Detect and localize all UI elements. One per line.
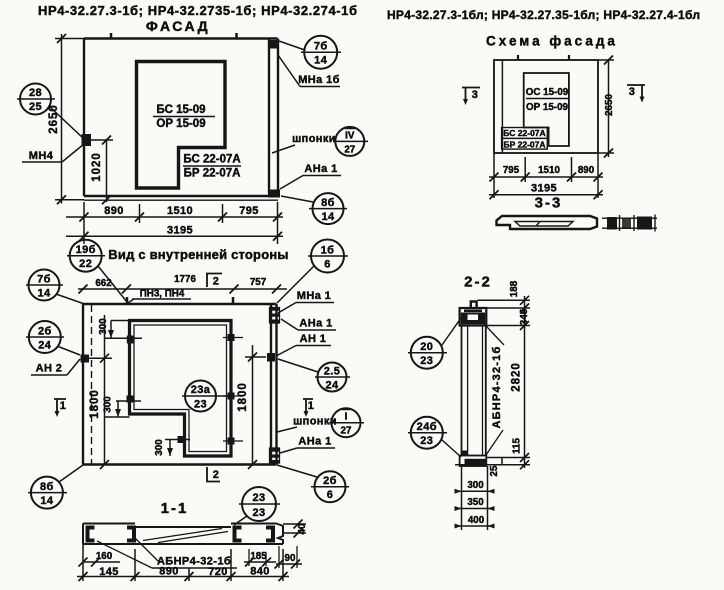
- schema opening: [524, 73, 569, 146]
- svg-text:АБНР4-32-1б: АБНР4-32-1б: [491, 346, 503, 429]
- callout circle 23а/23: [182, 381, 231, 412]
- svg-text:188: 188: [509, 280, 520, 297]
- svg-text:МНа 1: МНа 1: [297, 290, 331, 302]
- facade bottom dim 3195: [66, 225, 283, 241]
- svg-text:1: 1: [308, 400, 315, 412]
- svg-text:МН4: МН4: [29, 150, 54, 162]
- svg-text:1б: 1б: [321, 245, 335, 257]
- section marker 1 right: [303, 399, 314, 417]
- svg-text:720: 720: [208, 566, 228, 578]
- anchor square top-right: [269, 40, 278, 49]
- svg-text:8б: 8б: [321, 197, 335, 209]
- callout circle 1б/6: [277, 240, 348, 304]
- svg-text:3: 3: [629, 86, 636, 98]
- svg-text:IV: IV: [345, 131, 355, 142]
- svg-text:2: 2: [213, 276, 220, 288]
- dim 160: [79, 551, 121, 567]
- callout circle 2б/6: [277, 465, 349, 502]
- svg-text:АНа 1: АНа 1: [304, 163, 337, 175]
- dim 300 mid-left: [103, 396, 142, 417]
- svg-text:24: 24: [325, 380, 339, 392]
- label АН 1: [276, 333, 331, 356]
- inner panel top ticks ПН3 ПН4: [127, 297, 233, 304]
- schema table БС 22-07А / БР 22-07А: [502, 128, 548, 150]
- svg-text:НР4-32.27.3-1б; НР4-32.2735-1б: НР4-32.27.3-1б; НР4-32.2735-1б; НР4-32.2…: [38, 3, 357, 18]
- schema bottom dims 795/1510/890: [489, 153, 603, 198]
- label АН 2: [31, 359, 80, 375]
- svg-text:662: 662: [95, 278, 112, 289]
- svg-text:АН 2: АН 2: [36, 363, 63, 375]
- svg-text:3-3: 3-3: [535, 195, 563, 212]
- svg-text:890: 890: [104, 205, 124, 217]
- callout circle 2.5/24: [278, 359, 350, 392]
- svg-text:23: 23: [420, 435, 433, 447]
- dim 300 bottom: [154, 439, 190, 456]
- label АНа 1 (top right): [281, 318, 336, 331]
- svg-text:1510: 1510: [167, 205, 193, 217]
- svg-text:1020: 1020: [91, 152, 103, 182]
- svg-text:1776: 1776: [174, 274, 196, 285]
- svg-text:ОР 15-09: ОР 15-09: [526, 102, 568, 113]
- 1-1 profile: [83, 524, 283, 545]
- svg-text:27: 27: [344, 145, 355, 156]
- label АБНР4-32-1б: [97, 536, 237, 568]
- svg-text:МНа 1б: МНа 1б: [298, 74, 340, 86]
- svg-text:2б: 2б: [38, 326, 52, 338]
- svg-text:24б: 24б: [417, 421, 437, 433]
- svg-text:1800: 1800: [89, 389, 101, 419]
- svg-text:795: 795: [503, 165, 520, 176]
- anchor tick lines right edge: [223, 338, 243, 442]
- 2-2 label АБНР4-32-1б vertical: [486, 326, 504, 455]
- inner panel outline: [83, 304, 277, 465]
- 2-2 bottom block: [460, 451, 487, 467]
- svg-text:АН 1: АН 1: [300, 333, 327, 345]
- svg-text:23а: 23а: [191, 384, 211, 396]
- vertical dim 1020: [91, 136, 113, 205]
- callout circle 7б/14 top right: [279, 36, 341, 69]
- 2-2 bottom stacked dims 300/350/400: [455, 466, 495, 530]
- dim 185 ext lines: [249, 546, 297, 568]
- svg-text:160: 160: [96, 551, 113, 562]
- svg-text:14: 14: [37, 288, 51, 300]
- svg-text:300: 300: [98, 318, 109, 335]
- anchor МН4 black square on left edge: [82, 134, 92, 146]
- svg-text:2650: 2650: [48, 104, 60, 134]
- svg-text:28: 28: [29, 87, 42, 99]
- dim 90: [275, 553, 303, 569]
- dim 300 top-left: [98, 318, 142, 339]
- callout circle 28/25: [17, 84, 84, 140]
- inner top dim 662/1776/757: [78, 274, 287, 294]
- callout circle 19б/22: [67, 240, 127, 302]
- anchor square bottom-right: [268, 190, 280, 198]
- callout circle 2б/24: [26, 321, 80, 355]
- schema panel: [494, 60, 598, 153]
- svg-text:90: 90: [285, 553, 296, 564]
- svg-text:ПН3, ПН4: ПН3, ПН4: [140, 289, 185, 300]
- svg-text:185: 185: [250, 551, 267, 562]
- svg-text:2820: 2820: [511, 362, 523, 392]
- svg-text:345: 345: [519, 308, 530, 325]
- schema right dim 2650: [598, 56, 615, 158]
- svg-text:8б: 8б: [40, 481, 54, 493]
- right 1800 dim: [237, 345, 266, 469]
- callout circle 24б/23: [408, 417, 461, 457]
- label МН4: [22, 144, 84, 162]
- svg-text:14: 14: [314, 55, 328, 67]
- callout circle 7б/14 (inner view left): [26, 270, 83, 304]
- svg-text:23: 23: [194, 399, 207, 411]
- label ПН3, ПН4: [127, 289, 191, 304]
- svg-text:20: 20: [420, 341, 433, 353]
- label БС 22-07А / БР 22-07А: [183, 154, 241, 180]
- schema label ОС 15-09 / ОР 15-09: [526, 87, 569, 113]
- svg-text:7б: 7б: [314, 41, 328, 53]
- opening anchor marks: [127, 334, 235, 445]
- label АНа 1 (facade): [280, 163, 341, 189]
- svg-text:350: 350: [467, 497, 484, 508]
- 2-2 right dims: [455, 280, 530, 476]
- callout circle 8б/14 (facade bottom right): [281, 193, 347, 224]
- dim 185: [244, 551, 276, 567]
- vertical dim 2650: [48, 34, 84, 204]
- svg-text:22: 22: [79, 258, 92, 270]
- svg-text:19б: 19б: [76, 244, 96, 256]
- svg-text:400: 400: [468, 515, 485, 526]
- 2-2 top block: [460, 308, 487, 326]
- svg-text:890: 890: [578, 165, 595, 176]
- svg-text:БР 22-07А: БР 22-07А: [184, 168, 241, 180]
- svg-text:1: 1: [60, 400, 67, 412]
- label МНа 1: [278, 290, 334, 313]
- 3-3 right rotated dims: [602, 215, 657, 232]
- label МНа1б: [278, 55, 340, 87]
- callout circle 23/23: [234, 487, 280, 525]
- label БС 15-09 / ОР 15-09: [153, 104, 215, 130]
- svg-text:шпонки: шпонки: [293, 416, 337, 428]
- facade bottom dim row 890/1510/795: [66, 202, 283, 244]
- 2-2 top stub: [471, 302, 477, 309]
- svg-text:1-1: 1-1: [161, 500, 189, 517]
- svg-text:2б: 2б: [323, 475, 337, 487]
- section marker 2 top: [207, 274, 222, 288]
- label шпонки + circle IV/27: [272, 127, 368, 156]
- svg-text:6: 6: [327, 489, 334, 501]
- section marker 3 right: [627, 85, 645, 103]
- svg-text:6: 6: [324, 259, 331, 271]
- svg-text:2.5: 2.5: [324, 366, 341, 378]
- right edge bracket bottom: [270, 448, 280, 463]
- svg-text:23: 23: [420, 355, 433, 367]
- svg-text:14: 14: [40, 495, 54, 507]
- svg-text:1510: 1510: [538, 165, 560, 176]
- svg-text:40: 40: [297, 523, 308, 534]
- svg-text:БС 15-09: БС 15-09: [156, 104, 205, 116]
- right edge middle anchor: [267, 353, 275, 362]
- section marker 1 left: [54, 399, 66, 417]
- svg-text:БС 22-07А: БС 22-07А: [183, 154, 240, 166]
- svg-text:Схема фасада: Схема фасада: [486, 34, 618, 49]
- label АНа 1 (bottom right): [280, 436, 335, 454]
- svg-text:ОС 15-09: ОС 15-09: [526, 87, 569, 98]
- svg-text:АНа 1: АНа 1: [299, 318, 332, 330]
- svg-text:795: 795: [239, 205, 259, 217]
- svg-text:14: 14: [321, 211, 335, 223]
- svg-text:ФАСАД: ФАСАД: [146, 18, 210, 34]
- svg-text:ОР 15-09: ОР 15-09: [156, 118, 205, 130]
- svg-text:300: 300: [154, 439, 165, 456]
- svg-text:БР 22-07А: БР 22-07А: [503, 140, 545, 150]
- left 1800 dim: [89, 315, 112, 469]
- svg-text:25: 25: [29, 101, 42, 113]
- callout circle 8б/14 bottom left: [28, 465, 83, 509]
- svg-text:3: 3: [472, 89, 479, 101]
- svg-text:2-2: 2-2: [464, 274, 492, 291]
- svg-text:25: 25: [489, 465, 500, 476]
- facade lifting ticks: [111, 33, 237, 39]
- svg-text:840: 840: [250, 566, 270, 578]
- svg-text:115: 115: [512, 438, 523, 454]
- svg-text:23: 23: [252, 492, 265, 504]
- dim 40 right of 1-1: [283, 520, 308, 538]
- svg-text:2650: 2650: [604, 94, 615, 116]
- svg-text:АНа 1: АНа 1: [298, 436, 331, 448]
- 1-1 bottom dims 145/890/720/840: [77, 544, 289, 581]
- svg-text:НР4-32.27.3-1бл; НР4-32.27.35-: НР4-32.27.3-1бл; НР4-32.27.35-1бл; НР4-3…: [387, 8, 700, 22]
- svg-text:7б: 7б: [37, 274, 51, 286]
- svg-text:757: 757: [250, 277, 267, 288]
- svg-text:2: 2: [213, 469, 220, 481]
- svg-text:27: 27: [341, 426, 352, 437]
- inner opening L-shape double outline: [130, 321, 232, 457]
- right edge bracket top: [270, 308, 280, 324]
- facade panel outline: [84, 39, 278, 201]
- svg-text:БС 22-07А: БС 22-07А: [503, 128, 545, 138]
- svg-text:3195: 3195: [167, 225, 193, 237]
- facade opening (L-shape): [137, 62, 226, 189]
- svg-text:I: I: [345, 412, 348, 423]
- schema lifting ticks: [518, 55, 569, 60]
- АН2 black square left edge: [81, 355, 90, 363]
- svg-text:шпонки: шпонки: [292, 133, 336, 145]
- 3-3 profile: [497, 216, 598, 229]
- section marker 2 bottom: [207, 467, 220, 482]
- callout circle 20/23: [408, 318, 461, 369]
- svg-text:890: 890: [159, 566, 179, 578]
- schema dim 3195: [489, 183, 603, 200]
- svg-text:24: 24: [38, 340, 52, 352]
- section marker 3 left: [462, 88, 480, 106]
- 1-1 channel anchors: [86, 526, 276, 543]
- svg-text:Вид с внутренней стороны: Вид с внутренней стороны: [108, 247, 288, 262]
- svg-text:23: 23: [252, 507, 265, 519]
- 2-2 body: [462, 326, 486, 456]
- svg-text:300: 300: [467, 480, 484, 491]
- svg-text:145: 145: [99, 566, 119, 578]
- svg-text:1800: 1800: [237, 382, 249, 412]
- label шпонки + circle i/27: [277, 408, 364, 437]
- svg-text:3195: 3195: [531, 183, 557, 195]
